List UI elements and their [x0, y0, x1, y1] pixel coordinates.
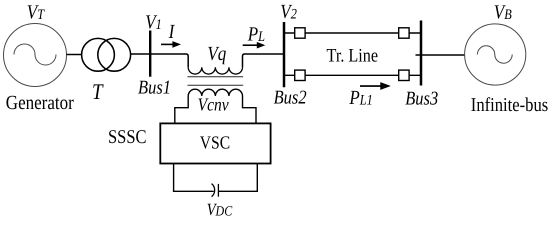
svg-text:PL: PL: [247, 23, 265, 45]
series transformer winding Vq: [188, 67, 242, 74]
wire bus3 to infinite bus: [416, 54, 465, 56]
secondary winding Vcnv with leads to VSC: [175, 89, 256, 123]
breaker square top-left: [295, 28, 305, 38]
DC capacitor curved plate: [212, 184, 215, 197]
infinite bus source circle with sine: [465, 24, 526, 85]
svg-text:Bus2: Bus2: [274, 86, 307, 108]
DC capacitor straight plate: [217, 184, 219, 197]
svg-text:V1: V1: [145, 11, 162, 33]
svg-text:Infinite-bus: Infinite-bus: [471, 93, 548, 115]
wire coil to Bus2: [243, 54, 285, 67]
svg-text:T: T: [92, 80, 104, 105]
transmission line bottom circuit: [284, 74, 421, 76]
current arrow I: [161, 41, 181, 48]
svg-text:V2: V2: [280, 0, 297, 22]
power-flow arrow PL1: [360, 82, 391, 90]
svg-text:Bus1: Bus1: [138, 76, 171, 98]
wire generator to transformer: [67, 54, 83, 56]
breaker square bottom-left: [295, 70, 305, 80]
transmission line top circuit: [284, 32, 421, 34]
wire transformer to series-coil drop (through Bus1): [131, 54, 189, 67]
breaker square bottom-right: [399, 70, 409, 80]
svg-text:Vq: Vq: [207, 42, 226, 64]
svg-text:I: I: [168, 21, 176, 43]
power-flow arrow PL: [243, 42, 266, 49]
transformer core lines: [188, 77, 244, 85]
svg-text:Vcnv: Vcnv: [198, 95, 229, 115]
svg-text:SSSC: SSSC: [108, 125, 147, 147]
svg-text:VT: VT: [27, 1, 45, 23]
bus3 bar: [420, 21, 423, 86]
DC link wires: [174, 164, 214, 192]
svg-text:Bus3: Bus3: [405, 87, 438, 109]
svg-text:Tr. Line: Tr. Line: [327, 45, 379, 66]
svg-text:VDC: VDC: [207, 201, 234, 220]
VSC converter box: [160, 123, 270, 163]
generator G1 (AC source circle with sine): [4, 24, 67, 87]
transformer T (two overlapping circles): [82, 38, 131, 71]
svg-text:Generator: Generator: [6, 91, 74, 113]
svg-text:VSC: VSC: [200, 133, 230, 153]
bus2 bar: [283, 22, 286, 87]
svg-text:VB: VB: [494, 1, 512, 23]
breaker square top-right: [399, 28, 409, 38]
svg-text:PL1: PL1: [348, 86, 372, 108]
bus1 bar: [149, 31, 151, 77]
